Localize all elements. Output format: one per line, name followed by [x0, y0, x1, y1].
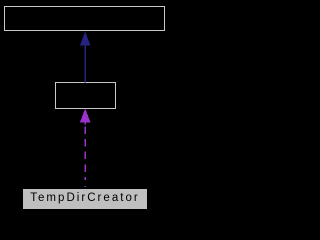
node: base class (empty top box) [4, 6, 165, 31]
node: intermediate class (empty middle box) [55, 82, 116, 109]
inheritance arrow (solid, midnightblue): middle box -> top box [80, 31, 91, 82]
node TempDirCreator (current class, gray) [23, 189, 147, 209]
usage arrow (dashed, darkorchid): TempDirCreator -> middle box [80, 108, 91, 187]
